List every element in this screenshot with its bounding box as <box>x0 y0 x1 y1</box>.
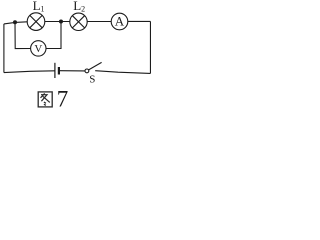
svg-text:S: S <box>89 74 95 86</box>
ammeter A <box>111 13 128 30</box>
switch S <box>85 62 102 72</box>
caption character 图 <box>38 92 52 107</box>
wire switch to bottom-right corner <box>95 71 150 74</box>
wire between L1 and L2 <box>45 21 70 23</box>
voltmeter V <box>31 41 46 56</box>
svg-text:7: 7 <box>57 87 69 110</box>
svg-text:V: V <box>34 43 42 55</box>
wire top-left segment <box>4 22 27 24</box>
battery <box>55 63 59 78</box>
wire left vertical <box>3 24 5 73</box>
node junction left of L1 <box>13 20 17 24</box>
lamp L1 <box>27 13 45 31</box>
wire voltmeter branch right <box>46 22 61 49</box>
wire between L2 and A <box>87 21 111 23</box>
wire battery to switch <box>60 70 85 72</box>
svg-text:L1: L1 <box>33 0 45 14</box>
wire bottom-left to battery <box>4 71 55 73</box>
lamp L2 <box>70 13 87 30</box>
wire A to top-right corner <box>128 20 151 22</box>
wire right vertical <box>149 21 151 73</box>
wire voltmeter branch left <box>15 22 31 48</box>
svg-text:L2: L2 <box>73 0 85 14</box>
node junction right of L1 <box>59 20 63 24</box>
svg-text:A: A <box>115 14 125 29</box>
